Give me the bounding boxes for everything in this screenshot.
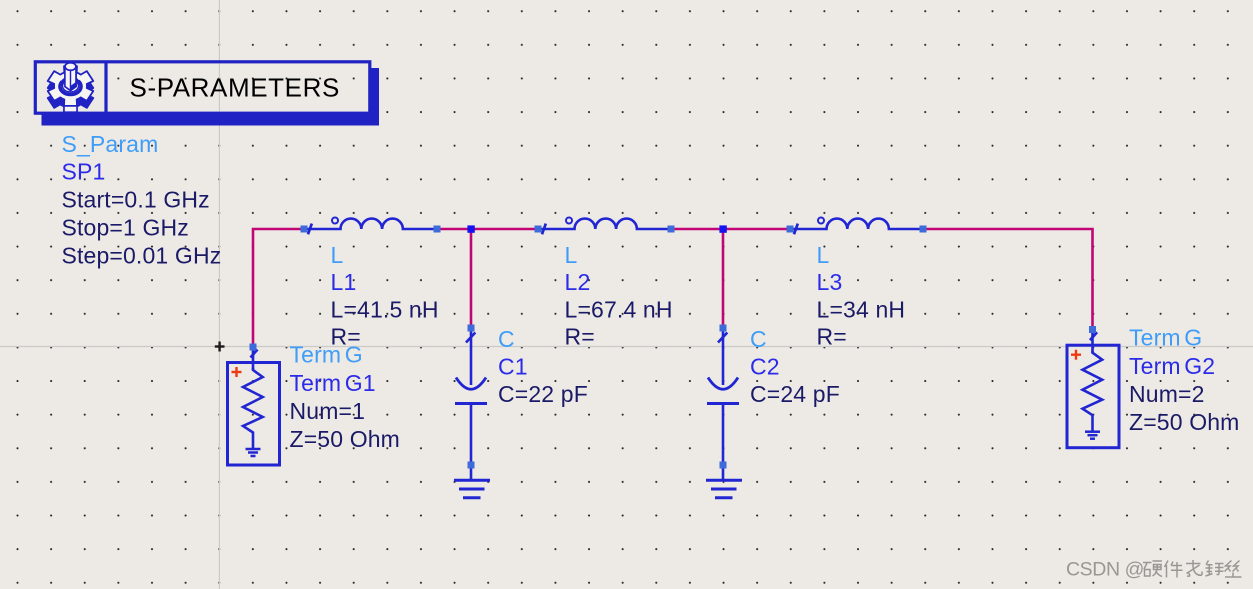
svg-text:TermG: TermG [290,342,363,368]
svg-text:TermG: TermG [1129,325,1202,351]
svg-text:SP1: SP1 [62,159,106,185]
plus polarity mark of TermG2 [1071,350,1081,360]
svg-text:L3: L3 [817,269,843,295]
svg-text:CSDN @: CSDN @ [1066,559,1144,581]
origin crosshair [215,342,225,352]
junction node above C1 [467,225,474,232]
svg-text:L: L [565,242,578,268]
node L2 pin2 [668,226,675,233]
node L3 pin2 [920,226,927,233]
svg-text:Num=2: Num=2 [1129,381,1205,407]
ground of C2 [706,480,742,498]
svg-text:TermG2: TermG2 [1129,353,1215,379]
S-Parameters controller box shadow [42,68,380,126]
svg-text:Start=0.1 GHz: Start=0.1 GHz [62,187,210,213]
ground of C1 [454,480,490,498]
node C2 top pin [720,325,727,332]
node TermG1 pin [250,344,257,351]
node C1 bottom pin [468,462,475,469]
svg-text:L2: L2 [565,269,591,295]
axis horizontal line [0,346,1253,348]
wire stub down to C2 [722,229,725,330]
svg-text:Stop=1 GHz: Stop=1 GHz [62,215,189,241]
S-Parameters controller divider [104,61,107,113]
node L2 pin1 [535,226,542,233]
wire L2 to L3 through node [671,228,790,231]
svg-text:L=67.4 nH: L=67.4 nH [565,297,673,323]
svg-text:C=24 pF: C=24 pF [750,381,840,407]
svg-text:R=: R= [565,324,595,350]
capacitor C1 [455,331,487,480]
node L1 pin2 [434,226,441,233]
node C2 bottom pin [720,462,727,469]
termination TermG1 [228,350,280,466]
wire left vertical + top segment to L1 [253,229,304,349]
svg-text:S-PARAMETERS: S-PARAMETERS [130,73,340,103]
svg-text:C1: C1 [498,354,528,380]
svg-text:C: C [498,326,515,352]
svg-text:S_Param: S_Param [62,131,159,157]
svg-text:L: L [331,242,344,268]
svg-text:L=34 nH: L=34 nH [817,297,906,323]
capacitor C2 [707,331,739,480]
S-Parameters gear icon [48,63,94,113]
axis vertical line [218,0,220,589]
node L3 pin1 [787,226,794,233]
wire L3 to right vertical down to TermG2 [923,229,1093,331]
svg-text:L=41.5 nH: L=41.5 nH [331,297,439,323]
svg-text:Num=1: Num=1 [290,398,366,424]
inductor L1 [307,218,437,235]
svg-text:L: L [817,242,830,268]
S-Parameters controller box [35,62,370,113]
svg-text:R=: R= [817,324,847,350]
svg-text:Z=50 Ohm: Z=50 Ohm [290,426,401,452]
inductor L3 [793,218,923,235]
svg-text:TermG1: TermG1 [290,370,376,396]
svg-text:C: C [750,326,767,352]
wire stub down to C1 [470,229,473,330]
ground of TermG2 [1085,432,1100,439]
watermark CJK glyphs [1143,560,1242,578]
axis vertical line over box interior [218,64,220,112]
node L1 pin1 [301,226,308,233]
svg-text:L1: L1 [331,269,357,295]
junction node above C2 [719,225,726,232]
ground of TermG1 [246,449,261,456]
inductor L2 [541,218,671,235]
svg-text:C2: C2 [750,354,780,380]
svg-text:Step=0.01 GHz: Step=0.01 GHz [62,243,222,269]
node TermG2 pin [1089,326,1096,333]
wire L1 to L2 through node [437,228,538,231]
node C1 top pin [468,325,475,332]
svg-text:C=22 pF: C=22 pF [498,381,588,407]
plus polarity mark of TermG1 [232,367,242,377]
termination TermG2 [1067,332,1119,448]
svg-text:Z=50 Ohm: Z=50 Ohm [1129,409,1240,435]
